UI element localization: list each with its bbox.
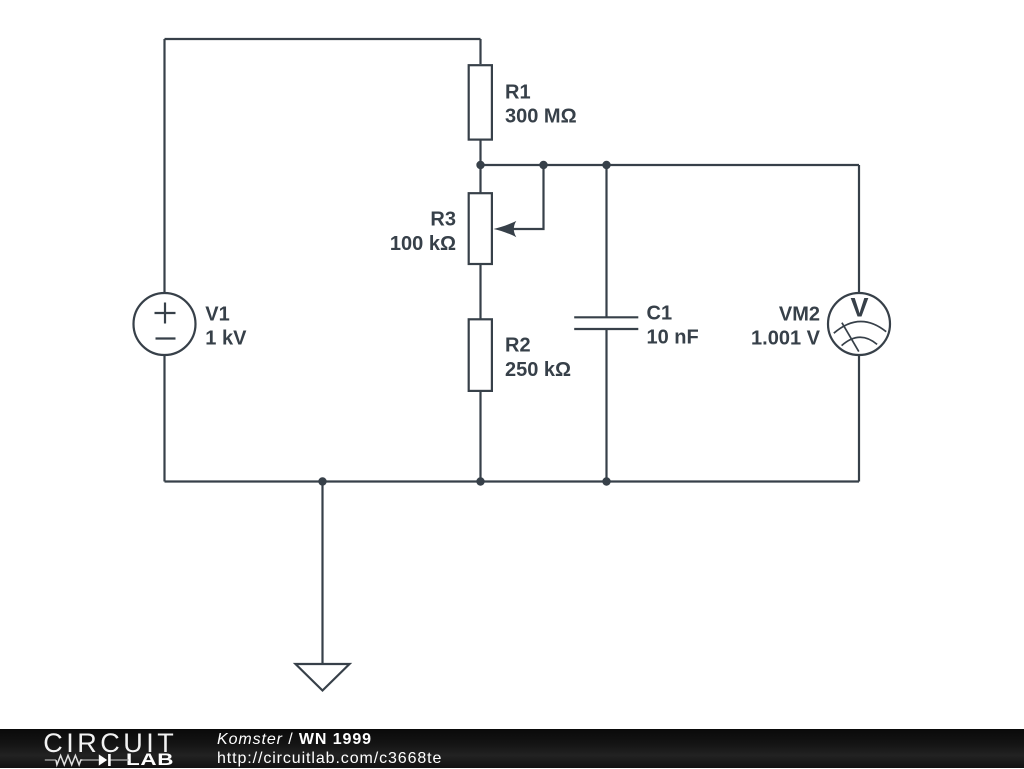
wire R3 bottom to R2 top	[479, 264, 481, 319]
wire C1 branch lower	[605, 329, 607, 482]
node dot A (R1/R3/wiper junction)	[476, 161, 484, 169]
svg-text:R1: R1	[505, 82, 531, 104]
svg-text:100 kΩ: 100 kΩ	[390, 233, 456, 255]
node dot C1 bottom rail	[602, 477, 610, 485]
svg-text:VM2: VM2	[779, 303, 820, 325]
node dot C1 top	[602, 161, 610, 169]
svg-text:V1: V1	[205, 303, 229, 325]
svg-text:V: V	[850, 293, 868, 323]
label V1 value 1 kV	[205, 328, 247, 350]
svg-text:300 MΩ: 300 MΩ	[505, 106, 577, 128]
svg-text:1.001 V: 1.001 V	[751, 328, 821, 350]
label C1 designator	[647, 303, 673, 325]
wire node A to VM2 branch (middle rail)	[481, 164, 860, 166]
CircuitLab logo LAB text	[126, 753, 174, 768]
node dot R2 bottom rail	[476, 477, 484, 485]
wire C1 branch upper	[605, 165, 607, 317]
svg-text:1 kV: 1 kV	[205, 328, 247, 350]
potentiometer R3 body	[469, 193, 492, 264]
label R2 value 250 kOhm	[505, 359, 571, 381]
svg-text:10 nF: 10 nF	[647, 327, 699, 349]
VM2 V letter	[850, 293, 868, 323]
V1 plus sign	[155, 303, 176, 324]
label C1 value 10 nF	[647, 327, 699, 349]
VM2 meter scale arcs	[834, 321, 886, 345]
CircuitLab logo resistor-diode art	[44, 751, 136, 769]
ground symbol	[296, 664, 350, 691]
svg-text:C1: C1	[647, 303, 673, 325]
capacitor C1 plates	[574, 317, 638, 329]
voltage source V1 circle	[134, 293, 196, 355]
label VM2 value 1.001 V	[751, 328, 821, 350]
wire ground branch	[321, 482, 323, 665]
label R1 value 300 MOhm	[505, 106, 577, 128]
label R3 designator	[430, 209, 456, 231]
wire top rail to R1 top	[479, 39, 481, 64]
node dot ground rail	[318, 477, 326, 485]
wire R1 bottom to node A	[479, 140, 481, 166]
label R3 value 100 kOhm	[390, 233, 456, 255]
CircuitLab logo CIRCUIT text	[43, 734, 177, 753]
label V1 designator	[205, 303, 229, 325]
resistor R1 body	[469, 65, 492, 139]
V1 minus sign	[156, 337, 176, 339]
wire R2 bottom to bottom rail	[479, 391, 481, 482]
wire top rail	[165, 38, 481, 40]
footer url line	[217, 749, 442, 768]
VM2 needle	[842, 323, 859, 352]
resistor R2 body	[469, 319, 492, 391]
svg-text:250 kΩ: 250 kΩ	[505, 359, 571, 381]
svg-text:R2: R2	[505, 335, 531, 357]
footer bar	[0, 729, 1024, 768]
wire VM2 branch down to meter	[858, 165, 860, 293]
wire bottom rail	[165, 480, 860, 482]
potentiometer R3 wiper wire	[512, 165, 544, 229]
footer title line	[217, 730, 372, 749]
node dot wiper rail	[539, 161, 547, 169]
voltmeter VM2 circle	[828, 293, 890, 355]
wire node A to R3 top	[479, 165, 481, 193]
wire VM2 bottom to bottom rail	[858, 356, 860, 482]
wire left vertical (top rail to V1)	[163, 39, 165, 293]
label R1 designator	[505, 82, 531, 104]
wire V1 bottom to bottom rail	[163, 356, 165, 482]
potentiometer R3 wiper arrowhead	[494, 221, 517, 237]
svg-text:R3: R3	[430, 209, 456, 231]
label VM2 designator	[779, 303, 820, 325]
label R2 designator	[505, 335, 531, 357]
